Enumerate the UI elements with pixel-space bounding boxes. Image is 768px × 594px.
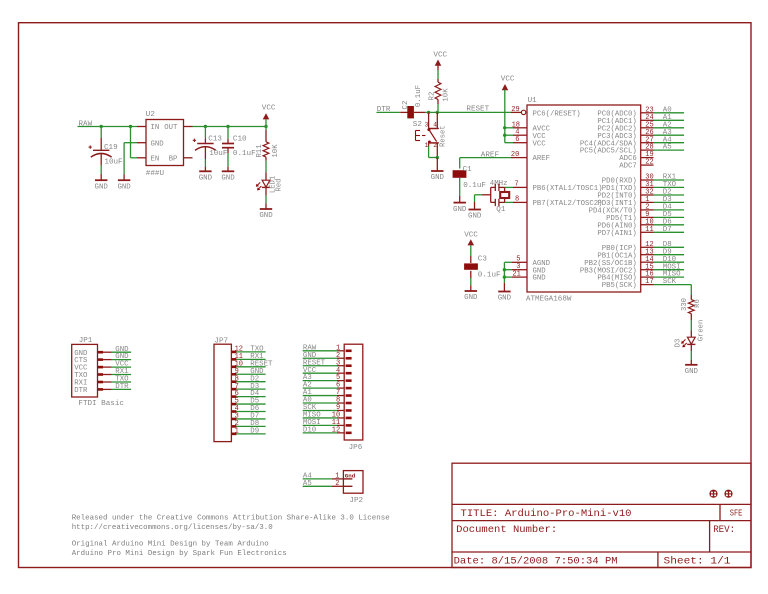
JP7 pin 9 GND bbox=[231, 368, 265, 376]
pin 25 A2 bbox=[641, 121, 684, 129]
svg-text:1: 1 bbox=[425, 142, 429, 149]
wire AREF bbox=[460, 157, 511, 159]
ground below C3 bbox=[465, 290, 477, 292]
JP6 pin 10 MISO bbox=[303, 412, 352, 420]
svg-text:Green: Green bbox=[698, 320, 706, 342]
pin 1 D3 bbox=[641, 196, 684, 204]
svg-text:GND: GND bbox=[259, 212, 273, 220]
capacitor C13 bbox=[204, 127, 206, 139]
JP6 pin 11 MOSI bbox=[303, 419, 352, 427]
svg-text:10uF: 10uF bbox=[104, 158, 123, 166]
svg-text:GND: GND bbox=[199, 175, 213, 183]
ground below C10 bbox=[222, 170, 234, 172]
wire SCK to R6 bbox=[690, 285, 692, 295]
JP6 pin 12 D10 bbox=[303, 426, 352, 434]
svg-text:A5: A5 bbox=[303, 480, 312, 488]
svg-text:2: 2 bbox=[433, 142, 437, 149]
U1 left pin names bbox=[533, 110, 603, 282]
svg-text:ATMEGA168W: ATMEGA168W bbox=[526, 296, 572, 304]
wire U2 OUT to VCC bbox=[193, 126, 267, 128]
wire C2 to RESET net bbox=[414, 111, 425, 113]
svg-text:AREF: AREF bbox=[481, 152, 500, 160]
pin 19 ADC6 bbox=[641, 151, 654, 159]
wire VCC bus to U1 power pins bbox=[504, 90, 506, 143]
pin 24 A1 bbox=[641, 114, 684, 122]
JP6 pin 4 VCC bbox=[303, 367, 352, 375]
JP7 pin 10 RESET bbox=[231, 360, 273, 368]
pin 16 MISO bbox=[641, 271, 684, 279]
svg-text:PC6(/RESET): PC6(/RESET) bbox=[533, 110, 581, 118]
svg-text:Q1: Q1 bbox=[496, 206, 506, 214]
svg-text:Reset: Reset bbox=[440, 125, 448, 147]
pin 22 ADC7 bbox=[641, 159, 654, 167]
LED LED1 Red bbox=[265, 161, 267, 173]
pin 30 RX1 bbox=[641, 174, 684, 182]
svg-text:8: 8 bbox=[515, 196, 519, 204]
svg-text:6: 6 bbox=[515, 136, 519, 144]
svg-text:0.1uF: 0.1uF bbox=[415, 85, 423, 107]
junction R2 bottom bbox=[436, 111, 439, 114]
wire EN branch bbox=[130, 127, 132, 158]
svg-text:C1: C1 bbox=[463, 166, 473, 174]
svg-text:D3: D3 bbox=[674, 339, 682, 348]
svg-text:17: 17 bbox=[645, 278, 653, 286]
junction at EN branch bbox=[129, 125, 132, 128]
JP6 pin 8 A0 bbox=[303, 397, 352, 405]
junction switch pin3 bbox=[427, 111, 430, 114]
regulator U2 bbox=[146, 120, 184, 166]
JP6 pin 6 A2 bbox=[303, 382, 352, 390]
svg-text:D10: D10 bbox=[303, 426, 316, 434]
svg-text:http://creativecommons.org/lic: http://creativecommons.org/licenses/by-s… bbox=[72, 524, 273, 532]
ground below U1 bbox=[498, 291, 510, 293]
capacitor C2 bbox=[407, 106, 414, 118]
svg-text:RAW: RAW bbox=[79, 121, 93, 129]
svg-text:GND: GND bbox=[464, 294, 478, 302]
svg-text:Released under the Creative Co: Released under the Creative Commons Attr… bbox=[72, 514, 390, 522]
svg-text:U1: U1 bbox=[528, 97, 538, 105]
svg-text:20: 20 bbox=[511, 151, 519, 159]
svg-text:AREF: AREF bbox=[533, 155, 551, 163]
svg-text:REV:: REV: bbox=[713, 524, 735, 536]
pin stub U2 OUT bbox=[184, 126, 193, 128]
JP6 pin 1 RAW bbox=[303, 344, 352, 352]
svg-text:29: 29 bbox=[511, 106, 519, 114]
pin 27 A4 bbox=[641, 136, 684, 144]
pin 13 D9 bbox=[641, 248, 684, 256]
svg-text:D7: D7 bbox=[663, 226, 672, 234]
svg-text:D9: D9 bbox=[250, 427, 259, 435]
pin 10 D6 bbox=[641, 218, 684, 226]
svg-text:VCC: VCC bbox=[262, 105, 276, 113]
svg-text:VCC: VCC bbox=[501, 76, 515, 84]
svg-text:SFE: SFE bbox=[730, 509, 743, 519]
svg-text:GND: GND bbox=[685, 368, 699, 376]
ground below C1 bbox=[454, 202, 466, 204]
JP6 pin 5 A3 bbox=[303, 374, 352, 382]
svg-text:0.1uF: 0.1uF bbox=[478, 272, 501, 280]
svg-text:0.1uF: 0.1uF bbox=[463, 182, 486, 190]
svg-text:GND: GND bbox=[95, 183, 109, 191]
svg-text:RESET: RESET bbox=[466, 106, 489, 114]
ground below S2 bbox=[431, 170, 443, 172]
U1 right pin names bbox=[580, 110, 637, 290]
svg-text:C2: C2 bbox=[402, 101, 410, 110]
svg-text:Sheet: 1/1: Sheet: 1/1 bbox=[664, 555, 731, 567]
JP7 pin 11 RX1 bbox=[231, 353, 265, 361]
svg-text:10uF: 10uF bbox=[209, 150, 228, 158]
svg-text:C3: C3 bbox=[478, 256, 488, 264]
svg-text:R2: R2 bbox=[428, 92, 436, 101]
svg-text:3: 3 bbox=[425, 122, 429, 129]
svg-text:###U: ###U bbox=[146, 170, 165, 178]
svg-text:Document Number:: Document Number: bbox=[456, 524, 557, 536]
junction VCC pin4 bbox=[503, 134, 506, 137]
svg-text:VCC: VCC bbox=[533, 140, 547, 148]
logo marks bbox=[709, 490, 717, 498]
svg-text:IN: IN bbox=[151, 124, 160, 132]
svg-text:10K: 10K bbox=[272, 144, 280, 158]
ic U1 ATMEGA168 bbox=[527, 105, 641, 292]
switch actuator bbox=[415, 131, 417, 141]
wire U2 GND to ground bbox=[124, 142, 137, 144]
svg-text:Red: Red bbox=[276, 179, 284, 192]
svg-text:12: 12 bbox=[332, 426, 340, 434]
ground below U2 GND pin bbox=[118, 179, 130, 181]
JP7 pin 12 TXO bbox=[231, 346, 265, 354]
wire RAW to U2 IN bbox=[78, 126, 138, 128]
pin 2 D4 bbox=[641, 204, 684, 212]
JP1 pin VCC bbox=[74, 361, 131, 373]
JP1 pin GND bbox=[74, 346, 131, 358]
JP7 pin 4 D6 bbox=[231, 405, 265, 413]
svg-text:JP6: JP6 bbox=[349, 444, 363, 452]
capacitor C19 bbox=[100, 127, 102, 139]
svg-text:330: 330 bbox=[681, 298, 689, 311]
pin 9 D5 bbox=[641, 211, 684, 219]
JP1 pin CTS bbox=[74, 353, 131, 365]
svg-text:0.1uF: 0.1uF bbox=[233, 150, 256, 158]
wire U1 ground bus bbox=[503, 262, 505, 283]
svg-text:VCC: VCC bbox=[433, 51, 447, 59]
svg-text:1: 1 bbox=[235, 427, 239, 435]
svg-text:C19: C19 bbox=[104, 144, 118, 152]
JP7 pin 6 D4 bbox=[231, 390, 265, 398]
capacitor C1 bbox=[459, 158, 461, 169]
pin 32 D2 bbox=[641, 189, 684, 197]
JP7 pin 3 D7 bbox=[231, 413, 265, 421]
svg-text:C10: C10 bbox=[233, 136, 247, 144]
svg-text:GND: GND bbox=[453, 206, 467, 214]
ground below Q1 bbox=[469, 209, 481, 211]
pin 26 A3 bbox=[641, 129, 684, 137]
junction GND pin3 bbox=[503, 268, 506, 271]
JP7 pin 2 D8 bbox=[231, 420, 265, 428]
svg-text:EN: EN bbox=[151, 156, 160, 164]
connector JP6 bbox=[344, 344, 363, 440]
JP7 pin 5 D5 bbox=[231, 398, 265, 406]
capacitor C3 bbox=[470, 245, 472, 256]
svg-text:PD7(AIN1): PD7(AIN1) bbox=[597, 230, 636, 238]
svg-text:GND: GND bbox=[533, 275, 547, 283]
svg-text:GND: GND bbox=[117, 183, 131, 191]
svg-text:4: 4 bbox=[433, 122, 437, 129]
capacitor C10 bbox=[227, 127, 229, 139]
ground below C13 bbox=[199, 170, 211, 172]
JP1 pin RXI bbox=[74, 376, 131, 388]
LED D3 Green bbox=[690, 320, 692, 331]
svg-text:JP2: JP2 bbox=[349, 497, 363, 505]
JP6 pin 2 GND bbox=[303, 352, 352, 360]
pin 17 SCK bbox=[641, 278, 692, 286]
svg-text:10K: 10K bbox=[443, 88, 451, 102]
ground below D3 bbox=[685, 364, 697, 366]
ground below LED1 bbox=[260, 208, 272, 210]
svg-text:Gnd: Gnd bbox=[345, 472, 356, 479]
JP2 pin 1 A4 bbox=[303, 472, 356, 480]
svg-text:S2: S2 bbox=[413, 121, 423, 129]
license text bbox=[72, 514, 390, 557]
svg-text:GND: GND bbox=[498, 295, 512, 303]
JP1 pin DTR bbox=[74, 383, 131, 395]
svg-text:DTR: DTR bbox=[115, 383, 129, 391]
resistor R6 330 bbox=[690, 295, 692, 300]
svg-text:PB6(XTAL1/TOSC1): PB6(XTAL1/TOSC1) bbox=[533, 185, 603, 193]
svg-text:VCC: VCC bbox=[464, 231, 478, 239]
svg-text:11: 11 bbox=[645, 226, 653, 234]
junction AVCC bbox=[503, 126, 506, 129]
wire Q1 to ground bbox=[482, 194, 491, 196]
svg-text:A5: A5 bbox=[663, 144, 672, 152]
ground below C19 bbox=[95, 179, 107, 181]
svg-text:GND: GND bbox=[468, 213, 482, 221]
JP7 pin 7 D3 bbox=[231, 383, 265, 391]
svg-text:22: 22 bbox=[645, 159, 653, 167]
pin 12 D8 bbox=[641, 241, 684, 249]
JP6 pin 7 A1 bbox=[303, 389, 352, 397]
pin 28 A5 bbox=[641, 144, 684, 152]
svg-text:Date: 8/15/2008 7:50:34 PM: Date: 8/15/2008 7:50:34 PM bbox=[454, 555, 618, 567]
JP6 pin 9 SCK bbox=[303, 404, 352, 412]
JP7 pin 8 D2 bbox=[231, 375, 265, 383]
pin 31 TXO bbox=[641, 181, 684, 189]
svg-text:ADC7: ADC7 bbox=[619, 163, 637, 171]
svg-text:OUT: OUT bbox=[164, 124, 178, 132]
svg-text:R11: R11 bbox=[256, 144, 264, 158]
junction GND pin21 bbox=[503, 275, 506, 278]
resistor R2 bbox=[437, 79, 439, 82]
pin stub U2 BP bbox=[184, 157, 193, 159]
svg-text:TITLE: Arduino-Pro-Mini-v10: TITLE: Arduino-Pro-Mini-v10 bbox=[461, 508, 632, 520]
pin 14 D10 bbox=[641, 256, 684, 264]
svg-text:DTR: DTR bbox=[74, 387, 88, 395]
svg-text:PB5(SCK): PB5(SCK) bbox=[602, 282, 637, 290]
connector JP2 bbox=[343, 471, 363, 494]
pin 15 MOSI bbox=[641, 263, 684, 271]
svg-text:Arduino Pro Mini Design by Spa: Arduino Pro Mini Design by Spark Fun Ele… bbox=[72, 550, 287, 558]
junction below S2 bbox=[436, 156, 439, 159]
title block bbox=[452, 463, 751, 567]
junction at VCC corner bbox=[264, 125, 267, 128]
JP1 pin TXO bbox=[74, 368, 131, 380]
svg-text:2: 2 bbox=[335, 480, 339, 488]
svg-text:C13: C13 bbox=[208, 136, 222, 144]
wire DTR to C2 bbox=[377, 111, 401, 113]
svg-text:7: 7 bbox=[515, 181, 519, 189]
svg-text:Original Arduino Mini Design b: Original Arduino Mini Design by Team Ard… bbox=[72, 540, 269, 548]
svg-text:21: 21 bbox=[512, 271, 520, 279]
resistor R11 bbox=[265, 127, 267, 131]
svg-text:U2: U2 bbox=[146, 111, 156, 119]
svg-text:SCK: SCK bbox=[663, 278, 677, 286]
junction at C19 bbox=[100, 125, 103, 128]
junction at C10 bbox=[226, 125, 229, 128]
svg-text:R6: R6 bbox=[694, 299, 702, 308]
JP2 pin 2 A5 bbox=[303, 480, 353, 488]
svg-text:GND: GND bbox=[221, 175, 235, 183]
svg-text:GND: GND bbox=[431, 174, 445, 182]
pin 23 A0 bbox=[641, 106, 684, 114]
JP6 pin 3 RESET bbox=[303, 359, 352, 367]
pin stub U1 reset with bubble bbox=[511, 111, 521, 113]
svg-text:FTDI Basic: FTDI Basic bbox=[78, 400, 124, 408]
svg-text:BP: BP bbox=[169, 156, 178, 164]
wire S2 to ground bbox=[436, 158, 438, 172]
JP7 pin 1 D9 bbox=[231, 427, 265, 435]
pin 11 D7 bbox=[641, 226, 684, 234]
svg-text:GND: GND bbox=[151, 140, 165, 148]
junction at C13 bbox=[204, 125, 207, 128]
